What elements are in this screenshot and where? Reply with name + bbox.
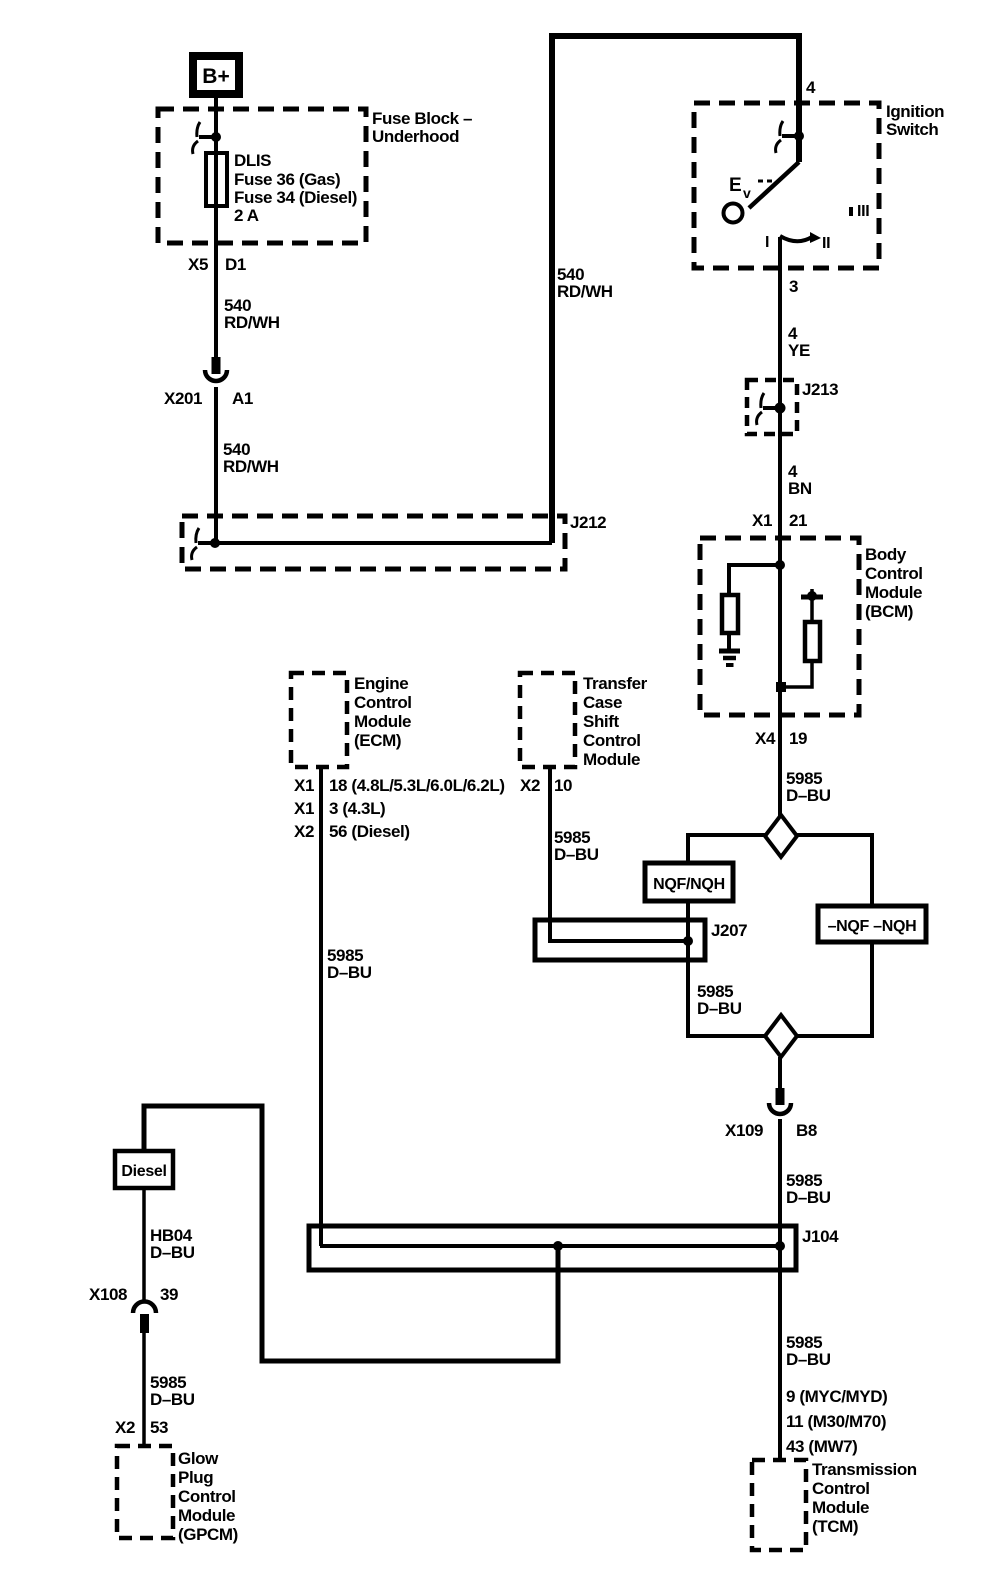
wire Diesel box to X108: [142, 1188, 146, 1303]
svg-text:18 (4.8L/5.3L/6.0L/6.2L): 18 (4.8L/5.3L/6.0L/6.2L): [329, 776, 505, 795]
svg-text:53: 53: [150, 1418, 168, 1437]
svg-text:D–BU: D–BU: [786, 1188, 831, 1207]
label wire 540 RD/WH upper: [224, 296, 280, 332]
dashed box J212 splice pack: [182, 516, 565, 569]
svg-text:Control: Control: [583, 731, 641, 750]
svg-text:RD/WH: RD/WH: [224, 313, 280, 332]
svg-text:Switch: Switch: [886, 120, 938, 139]
wire transfer case module down into J207: [550, 767, 688, 941]
box Diesel: [115, 1151, 173, 1188]
J212 splice connector symbol: [192, 528, 220, 560]
dashed box TCM: [752, 1460, 806, 1550]
svg-text:Glow: Glow: [178, 1449, 219, 1468]
ignition switch contact circle: [724, 204, 743, 223]
fuse block underhood connector splice symbol: [193, 122, 221, 154]
svg-text:A1: A1: [232, 389, 253, 408]
wire ignition switch wiper diagonal: [749, 162, 799, 208]
label wire 5985 D-BU bcm: [786, 769, 831, 805]
svg-text:Control: Control: [812, 1479, 870, 1498]
svg-text:v: v: [743, 185, 751, 201]
svg-text:21: 21: [789, 511, 807, 530]
svg-text:D–BU: D–BU: [327, 963, 372, 982]
svg-text:RD/WH: RD/WH: [223, 457, 279, 476]
label Engine Control Module ECM: [354, 674, 412, 750]
svg-text:Module: Module: [583, 750, 640, 769]
wire ignition pin 3 down through J213 and BCM to top diamond: [778, 237, 782, 816]
svg-text:Control: Control: [865, 564, 923, 583]
svg-text:4: 4: [806, 78, 816, 97]
svg-text:(GPCM): (GPCM): [178, 1525, 238, 1544]
label wire 5985 D-BU gpcm: [150, 1373, 195, 1409]
label wire 4 BN: [788, 462, 812, 498]
resistor BCM left: [722, 595, 738, 633]
label wire 5985 D-BU ecm: [327, 946, 372, 982]
ignition switch position arc with arrow: [780, 232, 821, 243]
svg-text:10: 10: [554, 776, 572, 795]
svg-text:X108: X108: [89, 1285, 127, 1304]
connector X201 A1: [205, 357, 227, 381]
svg-text:Module: Module: [865, 583, 922, 602]
svg-text:X2: X2: [294, 822, 314, 841]
svg-text:Transfer: Transfer: [583, 674, 648, 693]
node junction dot J104 right: [775, 1241, 785, 1251]
label wire 5985 D-BU above J104: [786, 1171, 831, 1207]
svg-text:Body: Body: [865, 545, 907, 564]
svg-text:Control: Control: [354, 693, 412, 712]
svg-text:YE: YE: [788, 341, 810, 360]
label Fuse Block Underhood: [372, 109, 472, 146]
svg-text:D–BU: D–BU: [554, 845, 599, 864]
svg-text:X5: X5: [188, 255, 208, 274]
box NQF/NQH: [645, 863, 733, 901]
dashed box Transfer Case Shift Control Module: [520, 673, 575, 767]
svg-text:–NQF –NQH: –NQF –NQH: [828, 918, 917, 935]
svg-text:Fuse 36 (Gas): Fuse 36 (Gas): [234, 170, 340, 189]
label pin X2 10: [520, 776, 572, 795]
svg-text:Module: Module: [812, 1498, 869, 1517]
node junction dot J104 left: [553, 1241, 563, 1251]
svg-text:B+: B+: [202, 65, 229, 88]
svg-text:RD/WH: RD/WH: [557, 282, 613, 301]
wire left splice branch NQF/NQH: [688, 835, 765, 1036]
wire BCM right branch bottom: [781, 661, 812, 687]
label wire 5985 D-BU below J104: [786, 1333, 831, 1369]
svg-text:19: 19: [789, 729, 807, 748]
svg-text:2 A: 2 A: [234, 206, 259, 225]
wire X109 down through J104 to TCM: [778, 1119, 782, 1460]
label wire 4 YE: [788, 324, 810, 360]
svg-text:Fuse 34 (Diesel): Fuse 34 (Diesel): [234, 188, 357, 207]
battery feed B+: [189, 52, 243, 98]
svg-text:J212: J212: [570, 513, 606, 532]
label Ignition Switch: [886, 102, 944, 139]
wire X108 to GPCM: [142, 1332, 146, 1446]
connector X109 B8: [769, 1088, 791, 1114]
node junction dot BCM top: [775, 560, 785, 570]
svg-text:Module: Module: [354, 712, 411, 731]
svg-text:Control: Control: [178, 1487, 236, 1506]
svg-text:X2: X2: [115, 1418, 135, 1437]
label connector X108 39: [89, 1285, 178, 1304]
svg-text:NQF/NQH: NQF/NQH: [653, 876, 725, 893]
svg-text:D–BU: D–BU: [697, 999, 742, 1018]
svg-text:D–BU: D–BU: [786, 1350, 831, 1369]
svg-text:9 (MYC/MYD): 9 (MYC/MYD): [786, 1387, 887, 1406]
label pin X1 21: [752, 511, 807, 530]
wire ECM down to J104: [319, 767, 323, 1246]
svg-text:D–BU: D–BU: [786, 786, 831, 805]
svg-text:(ECM): (ECM): [354, 731, 401, 750]
svg-text:X2: X2: [520, 776, 540, 795]
wire BCM right branch top: [810, 597, 814, 622]
dashed box ECM: [291, 673, 347, 767]
svg-text:Diesel: Diesel: [121, 1163, 166, 1180]
label wire 5985 D-BU mid: [697, 982, 742, 1018]
svg-text:Engine: Engine: [354, 674, 408, 693]
svg-text:D1: D1: [225, 255, 246, 274]
svg-text:D–BU: D–BU: [150, 1390, 195, 1409]
svg-text:39: 39: [160, 1285, 178, 1304]
label TCM pins: [786, 1387, 887, 1456]
resistor BCM right: [805, 622, 820, 661]
svg-text:J104: J104: [802, 1227, 839, 1246]
dashed box Ignition Switch: [694, 103, 879, 268]
box J104 splice pack: [309, 1226, 796, 1270]
svg-text:Underhood: Underhood: [372, 127, 459, 146]
ignition switch internal connector symbol: [776, 121, 804, 153]
box J207 splice pack: [535, 920, 705, 960]
svg-text:X109: X109: [725, 1121, 763, 1140]
svg-text:Plug: Plug: [178, 1468, 213, 1487]
wire B+ to fuse to X5 to X201: [214, 98, 218, 357]
svg-text:56 (Diesel): 56 (Diesel): [329, 822, 410, 841]
splice diamond bottom: [765, 1015, 797, 1057]
wire J104 internal: [320, 1244, 781, 1248]
wire right splice branch -NQF-NQH: [797, 835, 872, 1036]
label Glow Plug Control Module GPCM: [178, 1449, 238, 1544]
box -NQF -NQH: [818, 906, 926, 942]
svg-text:(TCM): (TCM): [812, 1517, 858, 1536]
label pin X2 53: [115, 1418, 168, 1437]
label wire 540 RD/WH riser: [557, 265, 613, 301]
label pin X5 D1: [188, 255, 246, 274]
svg-text:II: II: [822, 235, 830, 252]
wire X201 to J212: [214, 387, 218, 545]
dashed box Body Control Module BCM: [700, 538, 859, 715]
svg-text:J207: J207: [711, 921, 747, 940]
svg-text:Transmission: Transmission: [812, 1460, 917, 1479]
svg-text:III: III: [857, 203, 869, 220]
svg-text:X4: X4: [755, 729, 776, 748]
J213 splice connector symbol: [757, 393, 786, 425]
svg-text:X1: X1: [752, 511, 772, 530]
svg-text:E: E: [729, 175, 742, 196]
svg-text:J213: J213: [802, 380, 838, 399]
wire riser J212 up and over to ignition switch: [552, 36, 799, 543]
label Transmission Control Module TCM: [812, 1460, 917, 1536]
label Body Control Module BCM: [865, 545, 923, 621]
svg-text:Module: Module: [178, 1506, 235, 1525]
svg-text:(BCM): (BCM): [865, 602, 913, 621]
svg-text:Shift: Shift: [583, 712, 620, 731]
label pin X4 19: [755, 729, 807, 748]
ignition position III marker: [849, 203, 869, 220]
wire bottom diamond to X109: [778, 1057, 782, 1089]
label wire 540 RD/WH lower: [223, 440, 279, 476]
dashed box J213: [747, 380, 797, 434]
node junction dot J207: [683, 936, 693, 946]
connector X108 39: [133, 1302, 156, 1334]
label Transfer Case Shift Control Module: [583, 674, 648, 769]
wire J212 horizontal: [213, 541, 552, 545]
svg-text:11 (M30/M70): 11 (M30/M70): [786, 1412, 886, 1431]
label connector X201 A1: [164, 389, 253, 408]
fuse DLIS Fuse 36 / Fuse 34 2A: [206, 153, 227, 206]
svg-text:BN: BN: [788, 479, 812, 498]
ground BCM internal: [719, 651, 740, 665]
label ECM pins: [294, 776, 505, 841]
svg-text:D–BU: D–BU: [150, 1243, 195, 1262]
svg-text:Ignition: Ignition: [886, 102, 944, 121]
wire BCM resistor to ground: [727, 633, 731, 650]
wire BCM left branch: [729, 565, 780, 595]
svg-text:43 (MW7): 43 (MW7): [786, 1437, 857, 1456]
wire J104 branch to Diesel loop: [144, 1106, 558, 1361]
BCM internal voltage bar symbol: [801, 589, 823, 601]
svg-text:B8: B8: [796, 1121, 817, 1140]
svg-text:X1: X1: [294, 776, 314, 795]
svg-text:Case: Case: [583, 693, 622, 712]
svg-text:X201: X201: [164, 389, 202, 408]
svg-text:Fuse Block –: Fuse Block –: [372, 109, 472, 128]
label fuse DLIS values: [234, 151, 357, 225]
label wire 5985 D-BU transfer: [554, 828, 599, 864]
node junction square BCM bottom: [776, 682, 786, 692]
label wire HB04 D-BU: [150, 1226, 195, 1262]
svg-text:3 (4.3L): 3 (4.3L): [329, 799, 385, 818]
svg-text:X1: X1: [294, 799, 314, 818]
splice diamond top: [765, 815, 797, 857]
svg-text:I: I: [765, 234, 769, 251]
label connector X109 B8: [725, 1121, 817, 1140]
dashed box Fuse Block Underhood: [158, 109, 366, 243]
dashed box GPCM: [117, 1446, 173, 1538]
svg-text:3: 3: [789, 277, 798, 296]
svg-text:DLIS: DLIS: [234, 151, 271, 170]
ignition switch E run marker: [729, 175, 775, 201]
